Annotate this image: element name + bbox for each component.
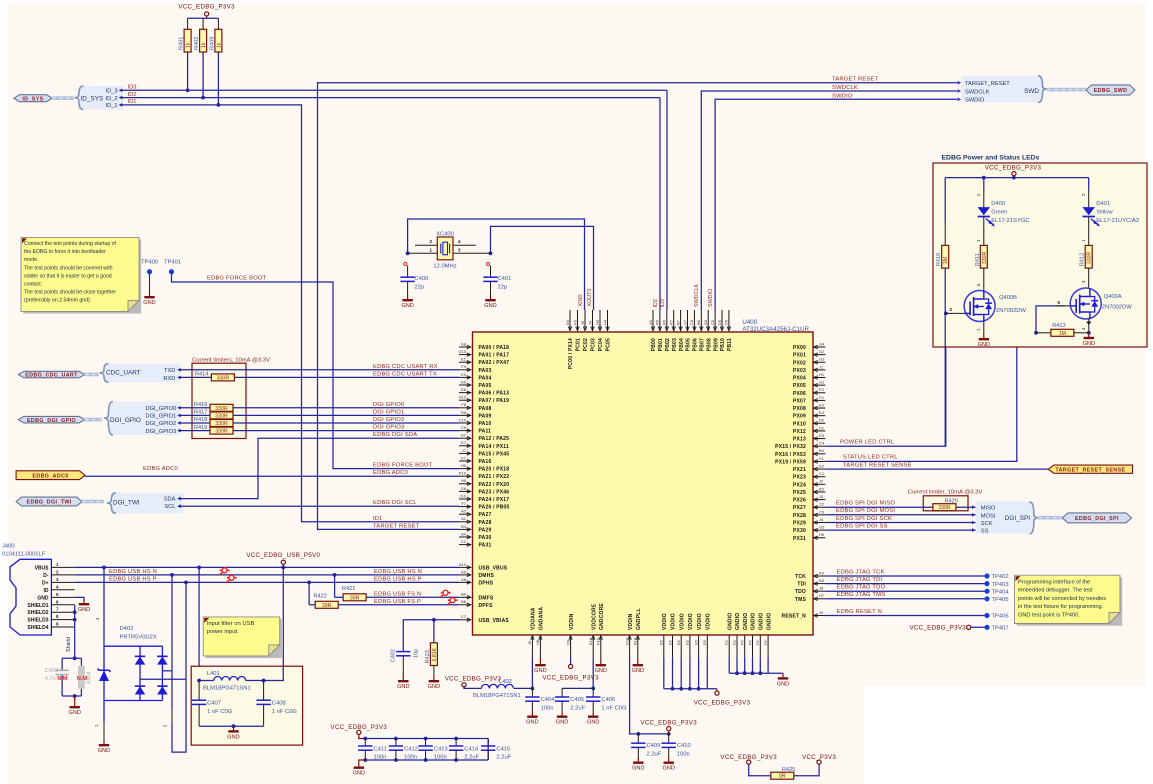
svg-text:R421: R421 xyxy=(342,586,355,592)
svg-text:contact.: contact. xyxy=(24,282,42,288)
svg-text:PB04: PB04 xyxy=(679,338,685,351)
resistor R411 xyxy=(975,245,988,268)
gnd GNDPLL pin xyxy=(632,657,644,674)
svg-text:SHIELD3: SHIELD3 xyxy=(27,618,48,624)
svg-text:C400: C400 xyxy=(415,276,429,282)
svg-text:PB03: PB03 xyxy=(672,338,678,351)
svg-text:GND: GND xyxy=(78,607,90,613)
svg-text:SCK: SCK xyxy=(981,521,993,527)
svg-text:GND: GND xyxy=(777,681,789,687)
svg-text:G3: G3 xyxy=(819,357,825,362)
svg-text:GND: GND xyxy=(484,303,496,309)
svg-text:EDBG_CDC_UART: EDBG_CDC_UART xyxy=(25,373,78,379)
wire net EDBG_CDC_USART_RX (TXD) xyxy=(177,364,459,372)
svg-text:D10: D10 xyxy=(624,637,629,645)
svg-text:C409: C409 xyxy=(647,743,661,749)
svg-text:VDDIN: VDDIN xyxy=(569,613,575,630)
svg-text:PA24 / PX17: PA24 / PX17 xyxy=(479,497,510,503)
svg-text:PA14 / PX11: PA14 / PX11 xyxy=(479,444,509,450)
svg-text:ID_3: ID_3 xyxy=(105,88,117,94)
svg-text:2.2uF: 2.2uF xyxy=(647,752,662,758)
svg-text:GND: GND xyxy=(662,766,674,772)
note input filter xyxy=(203,617,282,658)
svg-text:D+: D+ xyxy=(42,580,49,586)
wire D401 branch xyxy=(1081,178,1089,208)
svg-text:SWDIO: SWDIO xyxy=(965,98,985,104)
wire net EDBG_RESET_N xyxy=(825,609,987,616)
svg-text:C410: C410 xyxy=(677,743,691,749)
svg-text:PA22 / PX20: PA22 / PX20 xyxy=(479,482,510,488)
svg-text:VCC_EDBG_USB_P5V0: VCC_EDBG_USB_P5V0 xyxy=(246,552,320,559)
wire net DGI_GPIO3 xyxy=(177,425,459,433)
svg-text:PA06 / PA13: PA06 / PA13 xyxy=(479,391,510,397)
port TARGET_RESET_SENSE xyxy=(1048,465,1132,473)
wire net EDBG_SPI_DGI_MISO xyxy=(825,501,975,508)
svg-text:PA30: PA30 xyxy=(479,535,492,541)
wire Q400B gate xyxy=(946,307,965,313)
svg-text:SS: SS xyxy=(981,529,989,535)
wire D402 tap to HS N xyxy=(162,575,186,752)
wire net EDBG_ADC0 xyxy=(85,466,459,476)
svg-text:G10: G10 xyxy=(458,349,466,354)
svg-text:EDBG_SWD: EDBG_SWD xyxy=(1094,88,1128,94)
svg-text:R409: R409 xyxy=(209,37,215,50)
port EDBG_CDC_UART xyxy=(18,371,84,378)
svg-text:2N7002DW: 2N7002DW xyxy=(996,308,1026,314)
crystal XC400 xyxy=(408,231,491,269)
power VCC_EDBG_USB_P5V0 xyxy=(246,552,320,567)
differential pair marker HS xyxy=(219,568,237,583)
svg-text:EDBG_DGI_TWI: EDBG_DGI_TWI xyxy=(27,500,72,506)
svg-text:PX24: PX24 xyxy=(793,482,806,488)
svg-text:VCC_EDBG_P3V3: VCC_EDBG_P3V3 xyxy=(178,4,235,11)
gnd Q400B source xyxy=(976,322,990,349)
wire net EDBG_USB_HS_N xyxy=(75,569,459,577)
svg-text:EDBG USB FS P: EDBG USB FS P xyxy=(374,599,421,605)
svg-text:1M: 1M xyxy=(1059,331,1066,337)
wire net SWDIO xyxy=(708,94,957,311)
svg-text:PC05: PC05 xyxy=(606,338,612,351)
wire net ID2 xyxy=(119,92,660,310)
svg-text:DMHS: DMHS xyxy=(479,573,495,579)
svg-text:D3: D3 xyxy=(819,433,825,438)
port EDBG_DGI_GPIO xyxy=(18,416,84,423)
input filter box xyxy=(191,666,302,745)
wire R410 branch xyxy=(944,178,946,246)
svg-text:R420: R420 xyxy=(945,498,958,504)
MCU U400 AT32UC3A4256J-C1UR body xyxy=(473,319,814,635)
svg-text:GND: GND xyxy=(227,734,239,740)
svg-text:PA29: PA29 xyxy=(479,527,492,533)
svg-text:EDBG DGI SDA: EDBG DGI SDA xyxy=(373,432,417,438)
svg-text:F5: F5 xyxy=(732,640,737,645)
svg-text:TMS: TMS xyxy=(795,597,807,603)
svg-text:D402: D402 xyxy=(120,626,134,632)
svg-text:SWDCLK: SWDCLK xyxy=(694,284,700,307)
svg-text:VCC_EDBG_P3V3: VCC_EDBG_P3V3 xyxy=(694,699,751,706)
svg-text:6.81K: 6.81K xyxy=(432,647,438,661)
svg-text:330R: 330R xyxy=(217,375,230,381)
svg-text:F5: F5 xyxy=(747,640,752,645)
svg-text:PA11: PA11 xyxy=(479,429,492,435)
svg-text:1M: 1M xyxy=(943,257,949,264)
power VCC_EDBG_P3V3 (PLL) xyxy=(640,719,697,734)
wire D400 to R411 xyxy=(976,217,984,246)
harness DGI_SPI xyxy=(972,502,1038,535)
svg-text:EDBG USB HS N: EDBG USB HS N xyxy=(109,569,157,575)
svg-text:TCK: TCK xyxy=(795,574,806,580)
resistor R423 xyxy=(425,620,440,690)
svg-text:12.0MHz: 12.0MHz xyxy=(433,264,456,270)
svg-text:EDBG_DGI_SPI: EDBG_DGI_SPI xyxy=(1075,516,1119,522)
svg-text:PC03: PC03 xyxy=(591,338,597,351)
svg-text:N.M: N.M xyxy=(57,676,68,682)
wire LED box top rail xyxy=(945,176,1088,180)
svg-text:PB06: PB06 xyxy=(693,338,699,351)
svg-text:TP404: TP404 xyxy=(992,589,1010,595)
svg-text:B8: B8 xyxy=(696,319,701,325)
power VCC_EDBG_P3V3 (LED box) xyxy=(985,165,1042,178)
svg-text:VDDIO: VDDIO xyxy=(697,613,703,630)
svg-text:C415: C415 xyxy=(496,747,510,753)
svg-text:GND: GND xyxy=(587,720,599,726)
svg-text:D6: D6 xyxy=(724,319,729,325)
svg-text:TP402: TP402 xyxy=(992,574,1009,580)
svg-text:1k: 1k xyxy=(201,42,207,48)
svg-text:VDDIN: VDDIN xyxy=(628,613,634,630)
svg-text:GND: GND xyxy=(428,684,440,690)
svg-text:F1: F1 xyxy=(819,456,824,461)
svg-text:C7: C7 xyxy=(461,614,467,619)
svg-text:PX04: PX04 xyxy=(793,376,806,382)
harness CDC_UART xyxy=(85,364,180,383)
svg-text:A4: A4 xyxy=(461,531,467,536)
svg-text:2: 2 xyxy=(429,239,432,244)
svg-text:K7: K7 xyxy=(461,440,467,445)
transistor Q400B xyxy=(964,291,1026,322)
svg-text:330R: 330R xyxy=(215,421,228,427)
resistor R412 xyxy=(1080,245,1093,268)
svg-text:PB00: PB00 xyxy=(651,338,657,351)
svg-text:22p: 22p xyxy=(415,285,425,291)
svg-text:VDDIO: VDDIO xyxy=(688,613,694,630)
svg-text:R402: R402 xyxy=(194,37,200,50)
svg-text:VDDIO: VDDIO xyxy=(706,613,712,630)
svg-text:330R: 330R xyxy=(215,413,228,419)
wire R410 to gate junction / POWER LED ctrl drop xyxy=(944,268,948,446)
svg-text:EDBG JTAG TMS: EDBG JTAG TMS xyxy=(837,592,886,598)
wire net EDBG_USB_FS_N xyxy=(366,591,459,597)
svg-text:C406: C406 xyxy=(601,697,615,703)
svg-text:PX01: PX01 xyxy=(793,353,806,359)
svg-text:H6: H6 xyxy=(461,478,467,483)
wire net TARGET_RESET_SENSE xyxy=(825,462,1048,469)
svg-text:G6: G6 xyxy=(461,486,467,491)
MCU right pins PX00-PX31 xyxy=(775,341,825,541)
svg-text:R419: R419 xyxy=(194,425,207,431)
svg-text:EDBG RESET N: EDBG RESET N xyxy=(837,609,882,615)
wire net EDBG_JTAG_TMS xyxy=(825,592,987,599)
svg-text:Input filter on USB: Input filter on USB xyxy=(207,621,255,627)
svg-text:GNDIO: GNDIO xyxy=(743,613,749,630)
svg-text:K8: K8 xyxy=(819,578,825,583)
svg-text:C408: C408 xyxy=(272,701,286,707)
svg-text:PX02: PX02 xyxy=(793,360,806,366)
svg-text:TARGET RESET SENSE: TARGET RESET SENSE xyxy=(843,462,912,468)
wire net EDBG_SPI_DGI_MOSI xyxy=(825,508,975,515)
power VCC_EDBG_P3V3 (VDDIO) xyxy=(694,691,751,706)
svg-text:GND: GND xyxy=(556,720,568,726)
wire R412 to Q400A drain xyxy=(1081,268,1089,288)
svg-text:B10: B10 xyxy=(633,637,638,645)
svg-text:A8: A8 xyxy=(703,319,708,325)
svg-text:PX31: PX31 xyxy=(793,536,806,542)
svg-text:DPHS: DPHS xyxy=(479,580,494,586)
current limiters box xyxy=(192,358,270,439)
svg-text:39R: 39R xyxy=(350,595,360,601)
svg-text:SWDIO: SWDIO xyxy=(708,289,714,307)
svg-text:PX09: PX09 xyxy=(793,414,806,420)
wire HS N riser to R421 xyxy=(334,575,336,597)
svg-text:22p: 22p xyxy=(498,285,508,291)
svg-text:EDBG Power and Status LEDs: EDBG Power and Status LEDs xyxy=(942,154,1040,161)
svg-text:GND test point is TP400.: GND test point is TP400. xyxy=(1018,613,1080,619)
svg-text:A2: A2 xyxy=(461,509,467,514)
svg-text:R417: R417 xyxy=(194,410,207,416)
svg-text:EDBG FORCE BOOT: EDBG FORCE BOOT xyxy=(373,463,433,469)
svg-text:A7: A7 xyxy=(669,319,674,325)
svg-text:BLM18PG471SN1: BLM18PG471SN1 xyxy=(473,693,521,699)
svg-text:GNDIO: GNDIO xyxy=(735,613,741,630)
svg-text:C10: C10 xyxy=(459,417,467,422)
svg-text:R425: R425 xyxy=(782,767,795,773)
capacitor C409 xyxy=(631,734,662,772)
svg-text:GND: GND xyxy=(595,668,607,674)
capacitor C403 (NM) with NM resistor xyxy=(45,656,93,716)
svg-text:EDBG USB HS N: EDBG USB HS N xyxy=(374,569,422,575)
svg-text:10p: 10p xyxy=(414,649,420,658)
wire net DGI_GPIO2 xyxy=(177,417,459,425)
svg-text:1 nF C0G: 1 nF C0G xyxy=(601,706,627,712)
wire XIN0 net xyxy=(406,219,585,310)
svg-text:EDBG JTAG TCK: EDBG JTAG TCK xyxy=(837,569,885,575)
svg-text:GNDIO: GNDIO xyxy=(759,613,765,630)
wire VDDIN PLL rail xyxy=(630,657,671,735)
svg-text:H8: H8 xyxy=(535,639,540,645)
testpoint TP404 xyxy=(984,589,1009,596)
svg-text:100n: 100n xyxy=(374,755,387,761)
svg-text:E5: E5 xyxy=(676,639,681,645)
svg-text:ID: ID xyxy=(44,588,49,594)
svg-text:C411: C411 xyxy=(374,747,387,753)
svg-text:(preferrably on 2.54mm grid).: (preferrably on 2.54mm grid). xyxy=(24,298,91,304)
note bootloader test points xyxy=(21,237,141,313)
svg-text:G5: G5 xyxy=(819,525,825,530)
svg-text:XC400: XC400 xyxy=(436,231,454,237)
svg-text:F7: F7 xyxy=(461,501,466,506)
svg-text:EDBG JTAG TDO: EDBG JTAG TDO xyxy=(837,585,886,591)
wire net VBUS to USB_VBUS xyxy=(75,566,459,570)
svg-text:Shield: Shield xyxy=(66,637,72,652)
svg-text:ID_2: ID_2 xyxy=(105,96,117,102)
svg-text:1 nF C0G: 1 nF C0G xyxy=(272,709,298,715)
svg-text:GND: GND xyxy=(1083,341,1095,347)
svg-text:2N7002DW: 2N7002DW xyxy=(1102,305,1132,311)
resistor R409 xyxy=(209,29,222,52)
testpoint TP400 xyxy=(141,260,158,307)
resistor R422 xyxy=(309,594,338,609)
svg-text:D400: D400 xyxy=(991,201,1005,207)
svg-text:D9: D9 xyxy=(565,639,570,645)
wire net TARGET_RESET xyxy=(318,77,958,530)
svg-text:R404: R404 xyxy=(87,671,93,684)
svg-text:F5: F5 xyxy=(724,640,729,645)
harness DGI_GPIO xyxy=(85,402,180,436)
svg-text:embedded debugger. The test: embedded debugger. The test xyxy=(1018,588,1093,594)
svg-text:ID3: ID3 xyxy=(660,299,666,307)
wire VBUS drop to L401 xyxy=(198,567,200,680)
svg-text:C403: C403 xyxy=(45,668,58,674)
wire D401 to R412 xyxy=(1081,217,1089,246)
svg-text:EDBG DGI SCL: EDBG DGI SCL xyxy=(373,500,417,506)
wire R409 to ID1 xyxy=(217,52,219,105)
wire VDDIO rail xyxy=(664,657,717,691)
svg-text:A1: A1 xyxy=(461,516,467,521)
svg-text:E7: E7 xyxy=(461,455,467,460)
port EDBG_SWD xyxy=(1047,85,1135,95)
inductor L402 xyxy=(473,679,532,699)
svg-text:ID2: ID2 xyxy=(128,92,137,98)
svg-text:C414: C414 xyxy=(464,747,479,753)
svg-text:H10: H10 xyxy=(459,395,467,400)
svg-text:C3: C3 xyxy=(819,509,825,514)
svg-text:EDBG ADC0: EDBG ADC0 xyxy=(143,466,178,472)
svg-text:EL17-21UYC/A2: EL17-21UYC/A2 xyxy=(1096,218,1139,224)
wire net EDBG_JTAG_TCK xyxy=(825,569,987,576)
resistor R419 xyxy=(194,425,233,435)
svg-text:EL17-21SYGC: EL17-21SYGC xyxy=(991,218,1029,224)
svg-text:B9: B9 xyxy=(461,592,467,597)
svg-text:E5: E5 xyxy=(667,639,672,645)
svg-text:E3: E3 xyxy=(819,402,825,407)
svg-text:PX00: PX00 xyxy=(793,345,806,351)
svg-text:E9: E9 xyxy=(461,372,467,377)
svg-text:TP401: TP401 xyxy=(164,260,181,266)
svg-text:PA09: PA09 xyxy=(479,413,492,419)
svg-text:R412: R412 xyxy=(1080,253,1086,266)
svg-text:K9: K9 xyxy=(819,570,825,575)
svg-text:GND: GND xyxy=(526,720,538,726)
wire 5V riser to L401 output xyxy=(264,567,284,680)
svg-text:E4: E4 xyxy=(819,410,825,415)
wire net EDBG_JTAG_TDO xyxy=(825,585,987,592)
svg-text:DGI_GPIO0: DGI_GPIO0 xyxy=(146,406,177,412)
svg-text:F5: F5 xyxy=(740,640,745,645)
resistor R414 xyxy=(195,371,234,381)
svg-text:D401: D401 xyxy=(1096,201,1110,207)
capacitor C400 xyxy=(400,262,428,309)
power VCC_EDBG_P3V3 (VDDIN) xyxy=(542,657,599,681)
svg-text:5: 5 xyxy=(1057,300,1060,305)
wire R401 to ID3 xyxy=(187,52,189,90)
svg-text:DGI_TWI: DGI_TWI xyxy=(113,500,140,507)
svg-text:VCC_P3V3: VCC_P3V3 xyxy=(802,754,836,761)
svg-text:GNDANA: GNDANA xyxy=(539,607,545,630)
capacitor C412 xyxy=(389,739,418,761)
svg-text:C9: C9 xyxy=(461,425,467,430)
svg-text:C6: C6 xyxy=(689,319,694,325)
svg-text:EDBG JTAG TDI: EDBG JTAG TDI xyxy=(837,577,883,583)
svg-text:EDBG SPI DGI MISO: EDBG SPI DGI MISO xyxy=(836,501,895,507)
svg-text:PA02 / PX47: PA02 / PX47 xyxy=(479,360,510,366)
testpoint TP402 xyxy=(984,573,1008,580)
svg-text:VCC_EDBG_P3V3: VCC_EDBG_P3V3 xyxy=(985,165,1042,172)
power VCC_EDBG_P3V3 (L402) xyxy=(445,675,502,688)
wire VDDCORE rail xyxy=(562,657,595,690)
resistor R425 xyxy=(771,767,796,780)
svg-text:DGI_GPIO2: DGI_GPIO2 xyxy=(146,421,177,427)
svg-text:RXD: RXD xyxy=(163,376,175,382)
connector J400 USB xyxy=(2,544,75,636)
svg-text:SHIELD2: SHIELD2 xyxy=(27,610,48,616)
svg-text:RESET_N: RESET_N xyxy=(782,614,807,620)
svg-text:VDDIO: VDDIO xyxy=(671,613,677,630)
svg-text:1 nF C0G: 1 nF C0G xyxy=(207,709,233,715)
wire net ID1 xyxy=(119,99,459,522)
wire net POWER_LED_CTRL xyxy=(825,313,945,446)
svg-text:BLM18PG471SN1: BLM18PG471SN1 xyxy=(203,686,251,692)
svg-text:DGI_SPI: DGI_SPI xyxy=(1005,515,1030,522)
wire net DGI_GPIO0 xyxy=(177,402,459,410)
svg-text:STATUS LED CTRL: STATUS LED CTRL xyxy=(843,455,898,461)
port EDBG_DGI_TWI xyxy=(16,497,82,506)
testpoint TP407 xyxy=(984,625,1008,632)
svg-text:C401: C401 xyxy=(498,276,512,282)
harness DGI_TWI xyxy=(82,493,183,514)
svg-text:MISO: MISO xyxy=(981,506,996,512)
svg-text:PB07: PB07 xyxy=(700,338,706,351)
svg-text:E5: E5 xyxy=(685,639,690,645)
svg-text:PA03: PA03 xyxy=(479,368,492,374)
wire net EDBG_FORCE_BOOT xyxy=(172,272,460,469)
svg-text:SCL: SCL xyxy=(164,504,175,510)
svg-text:USB_VBUS: USB_VBUS xyxy=(479,565,508,571)
wire cap bank rails xyxy=(359,737,488,763)
svg-text:DGI GPIO3: DGI GPIO3 xyxy=(373,425,404,431)
svg-text:XIN0: XIN0 xyxy=(578,295,584,307)
svg-text:MOSI: MOSI xyxy=(981,513,996,519)
differential pair marker FS xyxy=(440,590,458,605)
svg-text:2.2uF: 2.2uF xyxy=(496,755,511,761)
svg-text:GND: GND xyxy=(534,668,546,674)
svg-text:F9: F9 xyxy=(461,364,466,369)
svg-text:EDBG USB HS P: EDBG USB HS P xyxy=(109,576,157,582)
svg-text:PA21 / PX22: PA21 / PX22 xyxy=(479,474,510,480)
svg-text:USB_VBIAS: USB_VBIAS xyxy=(479,618,510,624)
svg-text:D5: D5 xyxy=(717,319,722,325)
wire USB GND pin5 xyxy=(75,597,91,613)
svg-text:C1: C1 xyxy=(819,471,825,476)
svg-text:1k: 1k xyxy=(186,42,192,48)
svg-text:ID_SYS: ID_SYS xyxy=(22,96,43,102)
capacitor C407 xyxy=(192,681,233,727)
svg-text:2.2uF: 2.2uF xyxy=(570,706,585,712)
wire shield bus xyxy=(66,605,77,659)
resistor R416 xyxy=(194,402,233,412)
capacitor C401 xyxy=(483,262,511,309)
svg-text:R413: R413 xyxy=(1052,323,1065,329)
svg-text:SWDCLK: SWDCLK xyxy=(832,85,858,91)
